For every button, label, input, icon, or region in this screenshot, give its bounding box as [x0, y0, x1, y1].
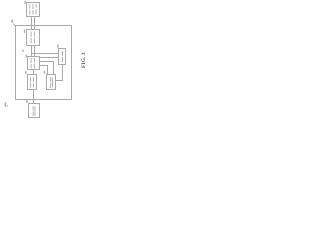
- svg-text:FIG. 3: FIG. 3: [81, 52, 87, 68]
